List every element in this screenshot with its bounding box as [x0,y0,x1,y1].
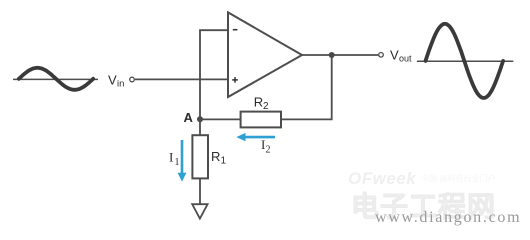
svg-text:2: 2 [266,144,271,155]
svg-text:1: 1 [175,157,180,168]
svg-text:R: R [254,95,263,110]
svg-text:A: A [184,110,194,125]
svg-text:中国·高科技行业门户: 中国·高科技行业门户 [421,173,496,183]
svg-text:out: out [399,54,412,64]
svg-text:in: in [117,79,124,90]
svg-text:V: V [108,72,117,87]
svg-text:R: R [211,149,220,164]
svg-text:V: V [390,47,399,62]
svg-text:I: I [169,149,173,164]
svg-text:2: 2 [263,101,269,112]
svg-text:1: 1 [221,156,227,167]
svg-text:OFweek: OFweek [348,169,417,188]
svg-text:www.diangon.com: www.diangon.com [375,209,521,226]
